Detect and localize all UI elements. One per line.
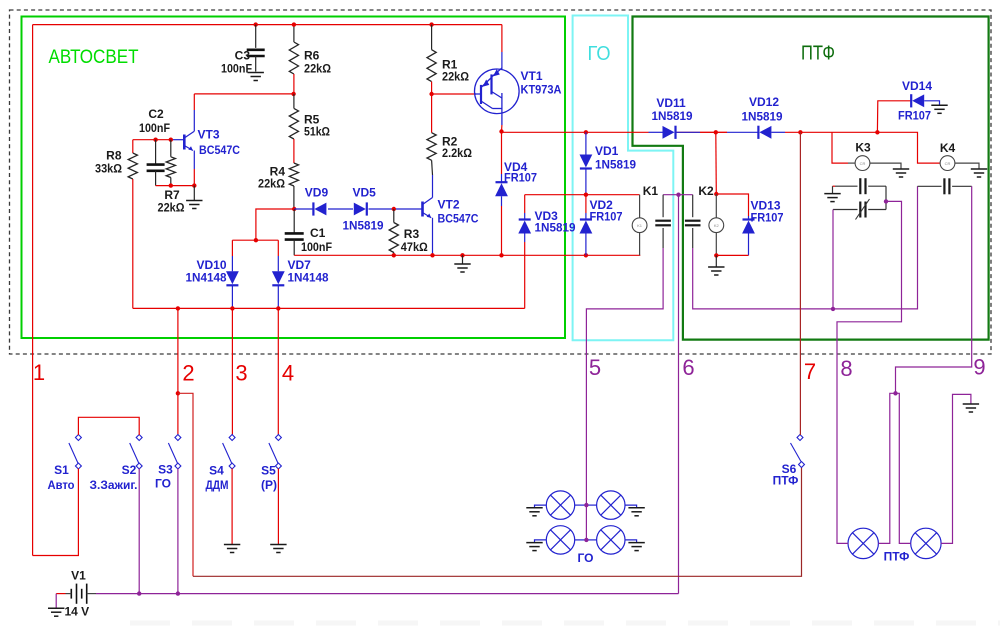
svg-text:VD5: VD5 <box>353 186 377 200</box>
zone frame ГО <box>573 16 674 341</box>
ground at K3 contact <box>824 194 840 202</box>
svg-text:BC547C: BC547C <box>438 212 479 226</box>
svg-text:22kΩ: 22kΩ <box>258 177 285 191</box>
wire R4 junction to VD10/VD7 tee <box>256 209 294 240</box>
svg-text:З.Зажиг.: З.Зажиг. <box>90 478 138 492</box>
wire R6-R5 junction link <box>194 93 293 95</box>
svg-text:6: 6 <box>682 355 694 380</box>
ground at HL6 return <box>963 404 979 412</box>
svg-text:1N4148: 1N4148 <box>186 271 227 285</box>
node R3 top <box>392 207 396 211</box>
relay contact K1.1 <box>662 195 664 218</box>
svg-text:K2: K2 <box>698 184 714 198</box>
node VD4 bottom <box>499 253 503 257</box>
svg-text:CR: CR <box>860 161 866 166</box>
ground below S5 <box>270 545 286 553</box>
node VD10 bottom <box>230 306 234 310</box>
svg-text:100nF: 100nF <box>139 121 170 135</box>
svg-text:7: 7 <box>804 359 816 384</box>
wire rail VD11 right <box>700 131 727 133</box>
node rail K3 tap <box>798 130 802 134</box>
lamp HL3 <box>546 526 574 554</box>
capacitor C2 <box>155 140 157 165</box>
svg-text:1N5819: 1N5819 <box>652 109 693 123</box>
svg-text:ПТФ: ПТФ <box>773 474 799 488</box>
svg-text:9: 9 <box>973 355 985 380</box>
svg-text:C1: C1 <box>310 226 326 240</box>
ground at HL2 <box>628 508 644 516</box>
node R3 bottom <box>392 253 396 257</box>
svg-text:ДДМ: ДДМ <box>206 478 229 492</box>
svg-text:14 V: 14 V <box>65 604 90 618</box>
wire 3 run <box>231 308 233 434</box>
svg-text:2.2kΩ: 2.2kΩ <box>442 146 472 160</box>
wire S2 bottom drop <box>138 469 140 594</box>
svg-text:VT3: VT3 <box>198 128 220 142</box>
svg-text:3: 3 <box>235 361 247 386</box>
switch S1 <box>69 435 81 469</box>
svg-text:FR107: FR107 <box>504 171 537 185</box>
svg-text:АВТОСВЕТ: АВТОСВЕТ <box>49 46 139 68</box>
relay coil K1 <box>639 195 641 218</box>
ground at HL1 <box>526 508 542 516</box>
svg-text:1N5819: 1N5819 <box>343 219 384 233</box>
node S2 rail tap <box>137 591 141 595</box>
wire K2 rail drop <box>715 132 718 194</box>
diode VD13 <box>748 216 750 221</box>
wire 2 run <box>177 308 179 434</box>
node VD1 bottom <box>584 193 588 197</box>
wire emitter rail <box>294 254 640 256</box>
switch S5 <box>269 435 281 469</box>
svg-text:100nF: 100nF <box>221 62 252 76</box>
wire HL3 inner lead <box>575 539 587 541</box>
svg-text:VD1: VD1 <box>595 144 619 158</box>
svg-text:1N5819: 1N5819 <box>742 110 783 124</box>
ground at HL4 <box>628 543 644 551</box>
node ground tap <box>460 253 464 257</box>
ground at VD14 <box>931 105 947 113</box>
battery V1 <box>71 584 86 604</box>
wire S3 bottom drop <box>177 469 179 594</box>
svg-text:Авто: Авто <box>48 478 75 492</box>
svg-text:VT2: VT2 <box>438 198 460 212</box>
capacitor C3 <box>255 25 257 48</box>
wire K1 top link <box>525 194 640 196</box>
node R7 top <box>169 138 173 142</box>
svg-text:K3: K3 <box>855 141 871 155</box>
svg-text:K2: K2 <box>714 223 720 228</box>
node lamp row1 <box>584 503 588 507</box>
wire HL4 inner lead <box>586 539 596 541</box>
node R7 bottom <box>169 183 173 187</box>
diode VD1 <box>585 132 587 154</box>
lamp HL5 <box>848 528 878 558</box>
resistor R5 <box>293 94 295 109</box>
wire VT3 collector riser <box>193 94 195 110</box>
svg-text:FR107: FR107 <box>898 109 931 123</box>
transistor VT2 <box>423 198 433 218</box>
wire S5 bottom drop <box>277 469 279 545</box>
zone frame АВТОСВЕТ <box>22 17 566 339</box>
wire HL6 right return <box>941 394 971 543</box>
wire K3 contacts right tie <box>885 186 887 209</box>
node VT2 emitter <box>430 253 434 257</box>
wire K2 ground stub <box>715 255 717 266</box>
diode VD2 <box>585 195 587 213</box>
wire K2 bottom link <box>716 254 748 256</box>
wire pump line blue <box>294 208 313 210</box>
wire R8-C2-R7 top link <box>133 139 171 141</box>
resistor R3 <box>393 209 395 223</box>
resistor R8 <box>132 140 134 153</box>
wire 6 run <box>678 195 680 594</box>
resistor R7 <box>170 140 172 157</box>
svg-text:VD12: VD12 <box>749 95 779 109</box>
node lamps mid <box>893 391 897 395</box>
svg-text:1N5819: 1N5819 <box>595 158 636 172</box>
wire HL1 inner lead <box>575 504 587 506</box>
wire main rail y132 <box>502 131 649 134</box>
wire contact top link <box>663 194 693 196</box>
svg-text:47kΩ: 47kΩ <box>401 240 428 254</box>
diode VD14 <box>912 94 924 107</box>
node rail VD14 tap <box>875 130 879 134</box>
wire K2-VD13 top link <box>716 194 748 216</box>
relay contact K2.1 <box>692 195 694 218</box>
ground below VT3 <box>186 201 202 209</box>
ground below C3 <box>248 73 264 81</box>
node VT1 collector <box>499 129 503 133</box>
ground below S4 <box>224 545 240 553</box>
wire 1 left edge <box>32 25 34 556</box>
wire K2 contact to K3K4 net <box>693 186 918 309</box>
svg-text:K4: K4 <box>940 141 956 155</box>
wire VT3 emitter drop <box>193 151 195 170</box>
wire battery rail <box>96 593 679 595</box>
diode VD5 <box>354 203 366 216</box>
wire VT3 emitter ground stub <box>193 186 195 200</box>
resistor R6 <box>293 25 295 42</box>
svg-text:8: 8 <box>840 356 852 381</box>
svg-text:R8: R8 <box>106 149 122 163</box>
node K2 top <box>714 192 718 196</box>
outer dotted border <box>10 10 992 354</box>
wire 8 to HL5 <box>837 542 848 544</box>
resistor R4 <box>293 139 295 163</box>
wire VD14 drop <box>877 101 911 133</box>
ground at K4 coil <box>971 169 987 177</box>
wire 4 run <box>277 308 279 434</box>
node K3 contact out <box>884 199 888 203</box>
svg-text:CR: CR <box>945 161 951 166</box>
wire HL2 inner lead <box>586 504 596 506</box>
wire 7 run <box>799 132 801 435</box>
svg-text:VD11: VD11 <box>656 96 686 110</box>
svg-text:K1: K1 <box>643 184 659 198</box>
lamp HL6 <box>911 528 941 558</box>
svg-text:R3: R3 <box>404 227 420 241</box>
svg-text:C2: C2 <box>148 107 164 121</box>
wire 2 branch to bottom link <box>178 393 193 576</box>
capacitor C1 <box>293 209 295 233</box>
decor faint band <box>130 621 1000 626</box>
svg-text:(Р): (Р) <box>261 478 277 492</box>
wire VT3 base <box>171 139 185 141</box>
svg-text:4: 4 <box>282 361 294 386</box>
svg-text:1N4148: 1N4148 <box>288 271 329 285</box>
wire S1-S2 top link <box>78 417 139 435</box>
wire lower rail <box>133 307 525 309</box>
svg-text:K1: K1 <box>637 223 643 228</box>
node C3 top <box>254 22 258 26</box>
diode VD3 <box>524 195 526 213</box>
svg-text:22kΩ: 22kΩ <box>158 201 185 215</box>
ground below emitter rail <box>454 264 470 272</box>
zone frame ПТФ <box>633 17 989 340</box>
svg-text:R6: R6 <box>304 49 320 63</box>
wire K3 rail drop <box>832 132 848 163</box>
switch S3 <box>168 435 180 469</box>
diode VD7 <box>277 240 279 256</box>
relay contact K4.1 <box>918 185 942 187</box>
node R6 bottom <box>291 92 295 96</box>
svg-text:S3: S3 <box>158 463 173 477</box>
wire bottom link to S6 <box>193 467 802 577</box>
svg-text:BC547C: BC547C <box>199 143 240 157</box>
ground at K3 coil <box>893 169 909 177</box>
svg-text:VT1: VT1 <box>521 69 543 83</box>
svg-text:22kΩ: 22kΩ <box>304 62 331 76</box>
node R4 bottom <box>292 207 296 211</box>
svg-text:2: 2 <box>182 361 194 386</box>
wire 9 run <box>896 186 972 393</box>
resistor R1 <box>431 25 433 50</box>
svg-text:ГО: ГО <box>155 477 171 491</box>
node R6 top rail <box>292 22 296 26</box>
svg-text:S1: S1 <box>54 463 69 477</box>
lamp HL1 <box>546 491 574 519</box>
node VD1 top <box>584 130 588 134</box>
wire K3 NC to net <box>832 210 834 309</box>
diode VD12 <box>727 131 758 133</box>
wire rail VD11-VD12 span <box>675 131 728 133</box>
svg-text:KT973A: KT973A <box>521 83 562 97</box>
svg-text:C3: C3 <box>235 49 251 63</box>
svg-text:100nF: 100nF <box>301 240 332 254</box>
svg-text:33kΩ: 33kΩ <box>95 162 122 176</box>
wire ground tap stub <box>462 255 464 263</box>
svg-text:5: 5 <box>589 355 601 380</box>
ground at battery <box>48 608 64 616</box>
resistor R2 <box>431 94 433 133</box>
ground below K2 <box>708 267 724 275</box>
svg-text:ГО: ГО <box>588 43 611 65</box>
svg-text:S2: S2 <box>122 463 137 477</box>
lamp HL2 <box>597 491 625 519</box>
switch S6 <box>791 435 805 468</box>
svg-text:V1: V1 <box>71 569 86 583</box>
relay coil K2 <box>715 194 717 218</box>
relay coil K3 <box>848 162 855 164</box>
node net8 tie <box>831 307 835 311</box>
switch S4 <box>223 435 235 469</box>
node VT3 emitter junction <box>192 183 196 187</box>
wire S1 bottom return <box>33 469 79 556</box>
svg-text:FR107: FR107 <box>590 210 623 224</box>
svg-text:S4: S4 <box>209 464 224 478</box>
svg-text:S5: S5 <box>261 464 276 478</box>
node R1 bottom <box>429 92 433 96</box>
diode VD9 <box>314 203 326 216</box>
svg-text:51kΩ: 51kΩ <box>304 125 330 139</box>
relay contact K3.2 NC <box>833 209 858 211</box>
wire 5 run <box>586 248 663 540</box>
transistor VT1 <box>475 68 520 125</box>
node VD10-VD7 tee <box>254 238 258 242</box>
diode VD4 <box>501 132 503 174</box>
ground at HL3 <box>526 543 542 551</box>
wire S4 bottom drop <box>231 469 233 545</box>
node VD7 bottom <box>276 306 280 310</box>
node C2 top <box>153 138 157 142</box>
node wire6 top <box>676 193 680 197</box>
node rail K2 tap <box>714 130 718 134</box>
svg-text:FR107: FR107 <box>751 211 784 225</box>
wire VD10-VD7 top link <box>232 239 278 241</box>
wire VT1 base <box>432 93 476 95</box>
wire rail VD12 to K4 corner <box>785 132 940 163</box>
svg-text:ГО: ГО <box>578 551 594 565</box>
wire top rail <box>33 24 502 26</box>
lamp HL4 <box>597 526 625 554</box>
svg-text:1N5819: 1N5819 <box>535 221 576 235</box>
svg-text:22kΩ: 22kΩ <box>442 70 469 84</box>
svg-text:ПТФ: ПТФ <box>801 43 835 65</box>
node VD2 bottom <box>584 253 588 257</box>
node lamp row2 <box>584 538 588 542</box>
relay contact K3.1 <box>835 185 858 187</box>
diode VD10 <box>231 240 233 256</box>
node wire2 branch <box>176 391 180 395</box>
transistor VT3 <box>184 131 194 150</box>
wire 8 run <box>837 201 902 541</box>
svg-text:ПТФ: ПТФ <box>884 550 910 564</box>
node S3 rail tap <box>176 591 180 595</box>
svg-text:VD9: VD9 <box>305 186 329 200</box>
svg-text:1: 1 <box>33 360 45 385</box>
node wire2 tap <box>176 306 180 310</box>
wire C2-R7 bottom link <box>156 185 195 187</box>
node R1 top <box>429 22 433 26</box>
relay coil K4 <box>940 156 955 171</box>
switch S2 <box>130 435 142 469</box>
node K2 bottom <box>714 253 718 257</box>
wire HL5-HL6 middle <box>878 393 910 543</box>
wire VT1 emitter to top rail <box>501 25 503 52</box>
svg-text:VD14: VD14 <box>902 79 932 93</box>
diode VD11 <box>649 131 663 133</box>
